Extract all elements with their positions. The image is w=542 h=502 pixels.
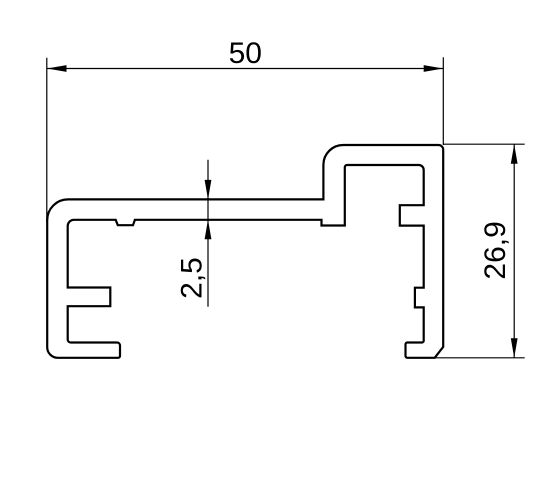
arrow bottom of dimension 2,5 — [205, 220, 212, 240]
arrow left of dimension 50 — [47, 65, 67, 72]
arrow right of dimension 50 — [424, 65, 444, 72]
svg-text:2,5: 2,5 — [175, 257, 208, 299]
arrow top of dimension 26,9 — [511, 144, 518, 164]
extension line top of dimension 26,9 — [443, 143, 524, 145]
svg-text:26,9: 26,9 — [479, 221, 512, 279]
svg-text:50: 50 — [229, 37, 262, 70]
profile outline (aluminium extrusion cross-section) — [47, 145, 443, 358]
dimension line 26,9 — [513, 144, 515, 358]
extension line left of dimension 50 — [46, 58, 48, 222]
arrow top of dimension 2,5 — [205, 180, 212, 200]
dimension line 50 — [47, 68, 443, 70]
extension line bottom of dimension 26,9 — [435, 357, 525, 359]
arrow bottom of dimension 26,9 — [511, 338, 518, 358]
dimension line 2,5 — [207, 160, 209, 307]
extension line right of dimension 50 — [442, 57, 444, 145]
